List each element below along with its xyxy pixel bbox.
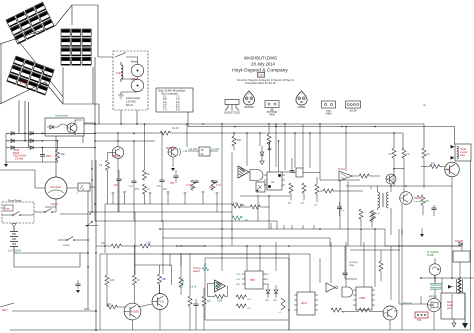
svg-text:TRG: TRG xyxy=(236,274,241,276)
vertical drops center xyxy=(187,124,320,205)
ground mid right xyxy=(420,234,424,237)
dots misc xyxy=(159,228,161,230)
svg-text:Shunt: Shunt xyxy=(51,202,58,206)
ic U8 555 xyxy=(245,271,263,289)
resistor R15 xyxy=(331,308,341,312)
svg-text:7486: 7486 xyxy=(359,296,366,300)
label timing xyxy=(193,267,201,273)
svg-text:Meter: Meter xyxy=(131,60,138,64)
led D8 D9 xyxy=(266,290,270,293)
box U6 xyxy=(256,182,265,192)
svg-text:35V: 35V xyxy=(170,182,175,185)
svg-text:WASHBUTI.DWG: WASHBUTI.DWG xyxy=(244,56,277,61)
bus lines mid xyxy=(88,204,462,254)
resistor Rb1 xyxy=(106,160,110,170)
right top wires xyxy=(394,124,471,240)
svg-text:OUT: OUT xyxy=(236,279,241,281)
svg-text:10K: 10K xyxy=(406,154,411,156)
resistor zigzag left of 323 xyxy=(323,189,333,193)
wires mid verticals row2 xyxy=(135,132,428,287)
package socket D xyxy=(346,101,361,112)
transistor Q2 xyxy=(124,303,141,320)
resistor R13 R14 xyxy=(236,295,246,299)
resistor R8 R9 horizontal xyxy=(232,204,242,208)
ic U4 xyxy=(267,172,282,190)
svg-text:25V: 25V xyxy=(135,189,140,191)
revision box xyxy=(258,72,265,77)
wire meter xyxy=(0,170,95,207)
revision dates xyxy=(237,79,295,85)
transformer T1 xyxy=(458,279,461,293)
ic U5 xyxy=(296,168,303,177)
svg-text:IRF510: IRF510 xyxy=(429,296,438,299)
capacitor Cb2 xyxy=(133,141,135,180)
svg-text:555: 555 xyxy=(250,278,255,282)
cap C8 xyxy=(430,284,442,290)
resistor R1a xyxy=(57,141,59,150)
svg-text:10K: 10K xyxy=(237,139,242,142)
resistor R bus xyxy=(160,131,170,135)
svg-text:4.7K: 4.7K xyxy=(216,184,221,187)
wires right block xyxy=(320,180,474,330)
svg-text:2.2K: 2.2K xyxy=(233,202,238,205)
svg-text:bd139: bd139 xyxy=(387,179,394,181)
resistor R17 xyxy=(359,174,369,178)
resistor R5 xyxy=(211,180,215,190)
svg-text:prot: prot xyxy=(447,307,451,310)
resistors 10K right xyxy=(392,148,396,158)
winding L2b xyxy=(387,192,389,208)
svg-text:U4: U4 xyxy=(271,180,275,184)
svg-text:Main: Main xyxy=(2,309,8,312)
svg-text:coupler: coupler xyxy=(460,151,468,154)
svg-text:2N3055: 2N3055 xyxy=(414,197,423,200)
mount outline xyxy=(0,5,99,104)
svg-text:TIP: TIP xyxy=(394,310,398,313)
diode D1 row xyxy=(6,133,95,162)
svg-text:10K: 10K xyxy=(388,154,393,156)
transistor Q7 xyxy=(386,174,396,184)
svg-text:4011: 4011 xyxy=(301,301,307,305)
solar array PV3 xyxy=(61,29,91,65)
transistor Q1 xyxy=(168,147,178,157)
svg-text:Ammeter: Ammeter xyxy=(50,185,61,189)
svg-text:250V: 250V xyxy=(46,155,52,158)
resistor R21 xyxy=(421,195,425,205)
resistor R16 xyxy=(379,261,383,271)
bus bottom xyxy=(10,160,471,330)
svg-text:Fuse: Fuse xyxy=(5,208,11,211)
svg-text:2.2K: 2.2K xyxy=(146,242,151,245)
svg-text:relay: relay xyxy=(460,154,466,157)
motor M xyxy=(429,264,440,275)
switch S2 xyxy=(44,209,53,213)
ic U9 xyxy=(297,292,315,315)
svg-text:1N4007: 1N4007 xyxy=(455,240,464,243)
svg-text:3COM: 3COM xyxy=(350,109,357,112)
svg-text:THR: THR xyxy=(265,284,270,286)
svg-text:adjust: adjust xyxy=(193,270,200,273)
svg-text:30.6 mV: 30.6 mV xyxy=(403,302,412,305)
svg-text:1K: 1K xyxy=(245,219,248,222)
label diodes xyxy=(13,149,27,160)
label load center xyxy=(126,96,140,107)
cap C6 teal xyxy=(216,285,220,291)
package socket B xyxy=(322,101,336,116)
package socket A xyxy=(265,101,279,117)
ground open right xyxy=(452,319,456,327)
resistor Rb3 xyxy=(143,184,147,194)
caps row under q1 xyxy=(175,170,177,175)
capacitor Cb3 xyxy=(161,133,163,179)
svg-text:MJ2955: MJ2955 xyxy=(166,147,176,150)
svg-text:25V: 25V xyxy=(163,189,168,191)
package TO-92 view Q2 xyxy=(296,91,307,109)
table solar log xyxy=(156,88,193,112)
box right xyxy=(453,251,470,262)
capacitor C1 xyxy=(42,148,44,155)
svg-text:MJ2955: MJ2955 xyxy=(112,155,121,158)
mosfet Q5 xyxy=(427,298,440,311)
svg-text:1K: 1K xyxy=(137,280,140,282)
diode in regulator xyxy=(50,125,53,129)
package TO-220 outline xyxy=(224,100,241,115)
svg-text:PUMP: PUMP xyxy=(427,254,434,257)
svg-text:✓: ✓ xyxy=(76,191,78,195)
transistor Q6 xyxy=(445,162,460,177)
capacitor Cb1 xyxy=(118,170,120,178)
zener D7 xyxy=(260,152,264,155)
opamp U13 xyxy=(339,171,352,181)
svg-text:RST: RST xyxy=(236,284,241,286)
transistor Q9 big xyxy=(400,192,413,205)
meter M2 xyxy=(131,79,143,91)
svg-text:VIEW: VIEW xyxy=(326,114,333,116)
wire battery xyxy=(14,253,88,267)
cap C7 xyxy=(344,268,346,272)
resistor R12 feedback xyxy=(215,295,225,299)
svg-text:TB1: TB1 xyxy=(417,319,422,322)
svg-text:MJE: MJE xyxy=(446,169,451,172)
trimpot xyxy=(202,264,209,271)
svg-text:LM7812 TO220: LM7812 TO220 xyxy=(224,113,241,115)
ground solid right xyxy=(464,319,466,323)
resistor R3 xyxy=(267,134,271,144)
resistor R2 xyxy=(233,133,235,136)
resistor R19 R20 xyxy=(359,209,363,219)
svg-text:1K: 1K xyxy=(147,174,150,176)
svg-text:2N3055: 2N3055 xyxy=(130,311,139,314)
switch S4 xyxy=(66,237,75,241)
svg-text:VIEW: VIEW xyxy=(269,115,276,117)
solar array PV2 xyxy=(7,56,54,95)
note green2 xyxy=(349,261,358,267)
regulator IC U1 xyxy=(199,147,210,156)
cap C9 xyxy=(339,202,341,206)
wire inside enclosure xyxy=(121,57,138,95)
svg-text:Triode: Triode xyxy=(460,148,467,151)
svg-text:10K: 10K xyxy=(247,308,251,310)
svg-text:TIP120: TIP120 xyxy=(156,301,165,304)
svg-text:1K: 1K xyxy=(288,202,291,205)
svg-text:coil: coil xyxy=(376,213,380,215)
wire to opamp U13 xyxy=(345,127,347,172)
label PV2 xyxy=(19,77,29,86)
svg-text:100: 100 xyxy=(107,303,112,306)
svg-text:1K: 1K xyxy=(147,189,150,191)
svg-text:LED: LED xyxy=(265,300,270,302)
meter M1 xyxy=(131,64,143,76)
svg-text:4.7K: 4.7K xyxy=(186,184,191,187)
svg-text:1.0 uF: 1.0 uF xyxy=(190,287,197,289)
switch S1 xyxy=(115,53,132,58)
svg-text:1K: 1K xyxy=(301,202,304,205)
resistor R11 xyxy=(107,305,117,309)
svg-text:18 Watt: 18 Watt xyxy=(15,157,23,160)
wire q7 row xyxy=(346,184,452,235)
svg-text:BAT+: BAT+ xyxy=(84,308,90,311)
resistor R8b xyxy=(250,205,260,209)
svg-text:10K: 10K xyxy=(247,299,251,301)
svg-text:1 November 2014, 30 Jun 15: 1 November 2014, 30 Jun 15 xyxy=(245,82,277,85)
wire PV outputs xyxy=(19,45,113,150)
svg-text:60 Hz: 60 Hz xyxy=(126,103,133,107)
svg-text:LED: LED xyxy=(273,300,278,302)
cap C10 xyxy=(433,205,435,208)
junction dots misc xyxy=(186,123,188,125)
coil L1 xyxy=(121,62,123,82)
svg-text:2.2K: 2.2K xyxy=(110,280,115,282)
svg-text:10K: 10K xyxy=(207,301,212,303)
lower center enclosure xyxy=(100,254,289,330)
svg-text:DIS: DIS xyxy=(265,279,269,281)
regulator box xyxy=(45,118,84,136)
resistor R7 xyxy=(302,183,306,193)
wire y196 xyxy=(240,195,290,229)
switch S5 bottom left xyxy=(0,303,14,307)
svg-text:0.1 W: 0.1 W xyxy=(172,127,179,130)
package TO-92 view Q xyxy=(243,91,254,109)
battery B1 xyxy=(12,224,16,228)
svg-text:Load Center: Load Center xyxy=(126,96,140,100)
svg-text:10K: 10K xyxy=(162,279,167,281)
inverter U10 xyxy=(326,283,335,292)
title block xyxy=(232,56,288,74)
ic U12 xyxy=(356,287,372,310)
ground in enclosure xyxy=(118,95,124,99)
switch S3 xyxy=(60,213,88,215)
svg-text:10K: 10K xyxy=(426,154,431,156)
resistor R7b xyxy=(315,184,319,194)
front panel box xyxy=(2,202,34,223)
ground left xyxy=(4,164,8,167)
opamp U7 xyxy=(215,280,226,292)
resistor R18 xyxy=(372,210,376,220)
svg-text:10K: 10K xyxy=(61,153,66,156)
cap C5 xyxy=(77,280,79,283)
svg-text:TL072: TL072 xyxy=(338,168,345,171)
svg-text:12V 100AH: 12V 100AH xyxy=(8,250,21,253)
svg-text:2N3904: 2N3904 xyxy=(297,107,306,109)
load box xyxy=(441,293,465,319)
svg-text:relay: relay xyxy=(349,264,355,267)
svg-text:+5 VDC: +5 VDC xyxy=(211,148,220,151)
svg-text:100K: 100K xyxy=(217,301,223,303)
gate U11 xyxy=(342,287,353,297)
ammeter M3 xyxy=(45,177,67,199)
winding L2a xyxy=(378,192,380,208)
svg-text:+12 VDC: +12 VDC xyxy=(188,148,198,151)
stubs to bus xyxy=(113,193,217,212)
resistor R10 xyxy=(111,244,121,248)
resistor R6 xyxy=(289,183,293,193)
solar array PV1 xyxy=(6,2,54,44)
svg-text:Front Panel: Front Panel xyxy=(8,199,22,203)
connector J1 xyxy=(281,298,285,310)
diode D11 xyxy=(448,285,452,289)
triac coupler box xyxy=(455,144,471,161)
svg-text:28 July 2014: 28 July 2014 xyxy=(251,62,275,67)
R verticals lower xyxy=(105,275,109,285)
svg-text:homemade: homemade xyxy=(55,114,69,118)
svg-text:2N2222A: 2N2222A xyxy=(244,106,254,109)
relay K1 xyxy=(78,183,90,191)
resistor Rb2 xyxy=(144,124,146,170)
svg-text:4.9: 4.9 xyxy=(176,109,180,112)
transistor Q0 xyxy=(67,123,77,133)
terminal block TB1 xyxy=(415,312,428,318)
svg-text:120 VAC: 120 VAC xyxy=(126,99,136,103)
dashed enclosure lightning protector xyxy=(113,51,148,110)
gate U3 xyxy=(250,170,263,181)
vertical bus left-center xyxy=(56,136,95,236)
transistor Q1b xyxy=(112,147,124,159)
wire bus top xyxy=(43,110,455,133)
svg-text:VCC: VCC xyxy=(265,274,270,276)
cap teal left xyxy=(180,278,184,288)
resistor R4 xyxy=(191,180,195,190)
opamp U2 xyxy=(238,166,249,178)
diode D10 xyxy=(459,242,462,246)
transistor Q4 xyxy=(383,306,397,320)
svg-text:7.3: 7.3 xyxy=(163,109,167,112)
svg-text:1K: 1K xyxy=(242,205,245,207)
svg-text:113V: 113V xyxy=(116,71,122,75)
transistor Q3 xyxy=(152,294,168,310)
svg-text:switch: switch xyxy=(63,244,70,247)
